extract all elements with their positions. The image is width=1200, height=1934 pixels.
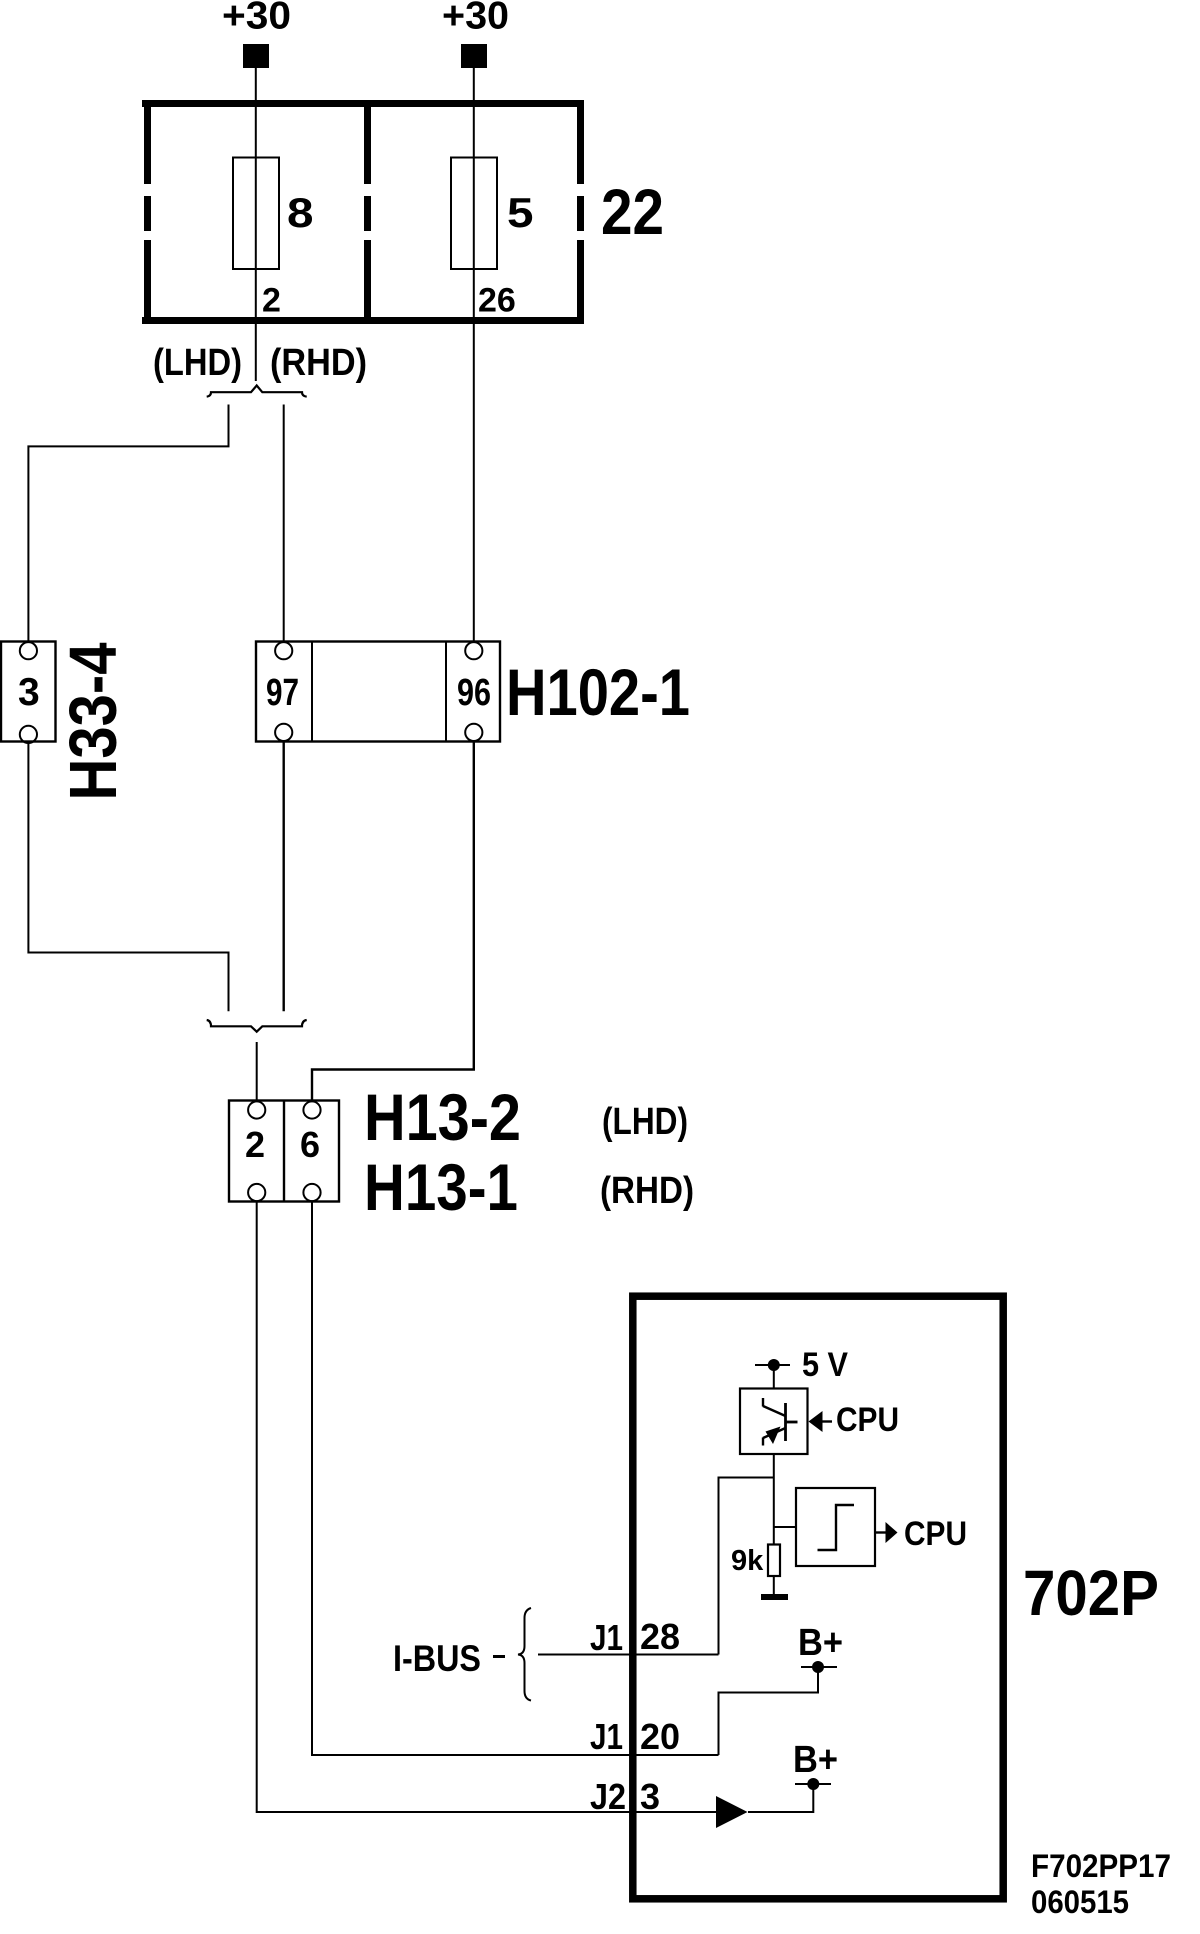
5V supply node — [755, 1364, 790, 1366]
phototransistor base lead — [786, 1421, 798, 1424]
svg-text:B+: B+ — [793, 1739, 838, 1781]
svg-text:(LHD): (LHD) — [602, 1101, 688, 1143]
J2-3 amplifier triangle — [716, 1796, 748, 1828]
connector H102-1 divider right — [445, 642, 447, 742]
fuse holder box 22 top edge — [142, 100, 584, 107]
fuse holder box 22 left edge (dashed) — [144, 100, 151, 324]
svg-text:8: 8 — [287, 189, 314, 236]
connector H13 body — [229, 1101, 339, 1202]
svg-text:(RHD): (RHD) — [600, 1170, 694, 1212]
phototransistor emitter arrow head — [766, 1427, 781, 1445]
terminal square +30 left — [243, 44, 269, 68]
fuse holder box 22 bottom edge — [142, 317, 584, 324]
wire I-BUS J1-28 — [538, 1654, 719, 1656]
svg-text:2: 2 — [245, 1124, 265, 1165]
svg-text:060515: 060515 — [1031, 1884, 1129, 1920]
brace merge LHD/RHD — [207, 1020, 307, 1032]
phototransistor emitter tick — [762, 1438, 764, 1446]
terminal square +30 right — [461, 44, 487, 68]
B+ node 2 dot — [807, 1778, 819, 1790]
wire +30 left through fuse 8 down to brace — [255, 68, 257, 381]
B+ node 2 bar — [795, 1783, 831, 1785]
svg-text:(RHD): (RHD) — [270, 342, 367, 384]
svg-text:F702PP17: F702PP17 — [1031, 1848, 1171, 1884]
svg-text:20: 20 — [640, 1716, 680, 1757]
fuse F8 body — [233, 158, 279, 270]
wire triangle to B+2 — [748, 1788, 813, 1812]
fuse F5 body — [451, 158, 497, 270]
svg-text:H13-1: H13-1 — [364, 1150, 518, 1224]
svg-text:B+: B+ — [798, 1622, 843, 1664]
svg-text:9k: 9k — [731, 1545, 764, 1577]
svg-text:6: 6 — [300, 1124, 320, 1165]
connector H102-1 pin 97 circle top — [275, 642, 292, 659]
connector H102-1 body — [256, 642, 500, 742]
svg-text:CPU: CPU — [904, 1515, 967, 1553]
connector H13 divider — [283, 1101, 285, 1202]
wire merge brace to H13 pin 2 — [256, 1042, 258, 1101]
CPU output arrow — [886, 1522, 898, 1543]
svg-text:96: 96 — [457, 672, 491, 714]
svg-text:26: 26 — [478, 282, 516, 320]
connector H33-4 pin circle bottom — [20, 726, 37, 743]
wire branch to J1-28 (up-left tap) — [719, 1478, 774, 1655]
svg-text:+30: +30 — [222, 0, 291, 38]
phototransistor base bar — [784, 1403, 787, 1441]
svg-text:(LHD): (LHD) — [153, 342, 242, 384]
connector H13 pin 2 circle top — [248, 1101, 265, 1118]
connector H102-1 divider left — [311, 642, 313, 742]
wire H33-4 pin 3 down and right to merge brace — [28, 743, 228, 1011]
ECU box 702P — [633, 1296, 1003, 1899]
brace split LHD/RHD — [207, 386, 307, 397]
svg-text:H102-1: H102-1 — [506, 655, 690, 729]
connector H102-1 pin 96 circle bottom — [465, 724, 482, 741]
B+ node 1 dot — [812, 1661, 824, 1673]
ground bar — [761, 1594, 788, 1600]
connector H33-4 pin circle top — [20, 642, 37, 659]
wire H102-1 pin 96 down to H13 pin 6 — [312, 741, 474, 1101]
svg-text:3: 3 — [18, 671, 40, 714]
connector H13 pin 6 circle bottom — [303, 1184, 320, 1201]
wire optocoupler down to 9k resistor — [773, 1454, 775, 1545]
svg-text:H33-4: H33-4 — [56, 643, 131, 801]
connector H102-1 pin 97 circle bottom — [275, 724, 292, 741]
I-BUS curly brace — [518, 1608, 531, 1701]
wire H102-1 pin 97 down to merge brace — [283, 741, 285, 1011]
CPU output wire — [875, 1531, 886, 1533]
fuse holder box 22 divider (dashed) — [364, 100, 371, 324]
phototransistor collector tick — [762, 1398, 764, 1407]
svg-text:28: 28 — [640, 1616, 680, 1657]
svg-text:702P: 702P — [1023, 1557, 1159, 1629]
wire RHD branch: brace to H102-1 pin 97 — [283, 405, 285, 644]
svg-text:97: 97 — [266, 672, 299, 714]
svg-text:22: 22 — [601, 176, 664, 248]
svg-text:J1: J1 — [590, 1617, 623, 1658]
svg-text:J2: J2 — [590, 1776, 626, 1817]
svg-text:I-BUS: I-BUS — [393, 1638, 481, 1679]
optocoupler box — [740, 1389, 808, 1455]
svg-text:3: 3 — [640, 1776, 660, 1817]
svg-text:+30: +30 — [442, 0, 509, 38]
wire 5V to optocoupler — [773, 1365, 775, 1389]
CPU input arrow — [809, 1411, 823, 1432]
svg-text:5 V: 5 V — [802, 1346, 848, 1384]
resistor 9k body — [768, 1545, 780, 1577]
svg-text:5: 5 — [507, 189, 534, 236]
connector H13 pin 2 circle bottom — [248, 1184, 265, 1201]
wire resistor to ground — [773, 1576, 775, 1594]
connector H102-1 pin 96 circle top — [465, 642, 482, 659]
wire junction to schmitt trigger — [774, 1526, 796, 1528]
phototransistor emitter diagonal — [763, 1428, 786, 1438]
B+ node 1 bar — [801, 1666, 837, 1668]
dash after I-BUS — [493, 1655, 505, 1658]
wire H13 pin 6 down to J1-20 line — [312, 1203, 719, 1756]
wire B+1 down to J1-20 line — [719, 1667, 819, 1755]
wire H13 pin 2 down to J2-3 line — [257, 1203, 716, 1813]
connector H13 pin 6 circle top — [303, 1101, 320, 1118]
schmitt trigger box — [796, 1488, 875, 1566]
phototransistor collector diagonal — [763, 1406, 786, 1416]
svg-text:CPU: CPU — [836, 1401, 899, 1439]
wire +30 right through fuse 5 down to H102-1 pin 96 — [473, 68, 475, 643]
schmitt step symbol — [818, 1505, 855, 1550]
connector H33-4 body — [1, 642, 56, 742]
svg-text:2: 2 — [262, 282, 281, 320]
fuse holder box 22 right edge (dashed) — [577, 100, 584, 324]
svg-text:H13-2: H13-2 — [364, 1080, 521, 1154]
svg-text:J1: J1 — [590, 1716, 623, 1757]
wire LHD branch: brace to H33-4 pin 3 — [28, 405, 228, 643]
